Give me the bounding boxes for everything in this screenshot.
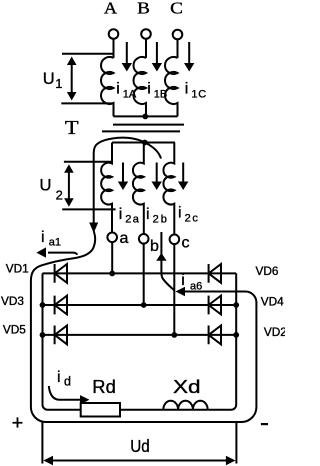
svg-text:C: C <box>170 0 183 17</box>
svg-text:VD6: VD6 <box>256 264 279 278</box>
svg-text:VD5: VD5 <box>3 322 26 336</box>
svg-text:A: A <box>104 0 117 17</box>
svg-text:2: 2 <box>56 188 63 203</box>
svg-text:VD4: VD4 <box>261 295 284 309</box>
svg-text:U: U <box>43 70 55 88</box>
svg-text:1B: 1B <box>154 89 167 101</box>
svg-text:i: i <box>146 206 150 223</box>
svg-text:i: i <box>181 272 185 289</box>
svg-text:VD2: VD2 <box>264 325 285 339</box>
svg-text:i: i <box>119 206 123 223</box>
svg-text:T: T <box>65 117 79 139</box>
svg-text:VD1: VD1 <box>6 262 29 276</box>
svg-text:VD3: VD3 <box>1 294 24 308</box>
svg-text:B: B <box>137 0 150 17</box>
svg-text:Rd: Rd <box>92 377 116 397</box>
svg-text:1A: 1A <box>123 89 137 101</box>
svg-text:2a: 2a <box>125 214 140 226</box>
svg-text:Xd: Xd <box>173 377 201 397</box>
svg-text:a1: a1 <box>49 236 61 248</box>
svg-text:2b: 2b <box>153 214 167 226</box>
svg-text:Ud: Ud <box>130 436 150 456</box>
svg-text:i: i <box>41 229 45 246</box>
svg-text:i: i <box>178 204 182 221</box>
svg-text:a6: a6 <box>190 280 202 292</box>
svg-text:i: i <box>116 81 120 98</box>
svg-text:2c: 2c <box>185 213 199 225</box>
svg-text:b: b <box>150 238 159 255</box>
svg-text:1C: 1C <box>191 89 207 101</box>
svg-text:1: 1 <box>55 76 62 91</box>
svg-text:c: c <box>182 235 190 252</box>
svg-text:i: i <box>147 81 151 98</box>
svg-text:i: i <box>185 81 189 98</box>
svg-text:+: + <box>12 413 24 435</box>
svg-text:d: d <box>64 375 71 389</box>
svg-text:a: a <box>120 230 129 247</box>
svg-text:i: i <box>57 369 61 386</box>
svg-text:U: U <box>40 176 52 194</box>
